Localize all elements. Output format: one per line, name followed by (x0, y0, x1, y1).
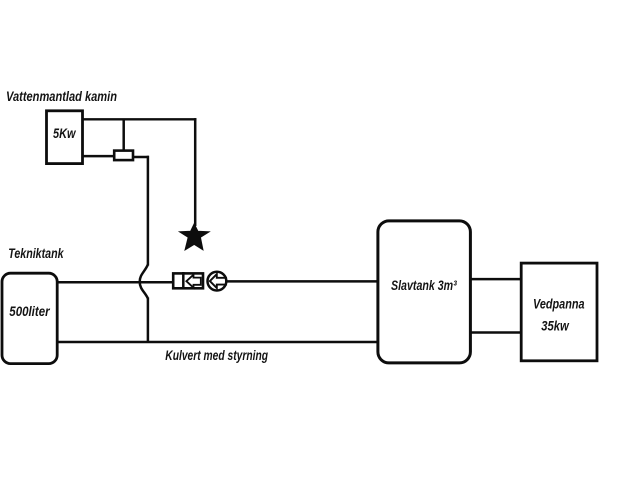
tank Slavtank 3m3 (378, 221, 471, 363)
fuse/shunt box (114, 151, 133, 161)
jog crossing top pipe (140, 265, 148, 299)
svg-text:Kulvert med styrning: Kulvert med styrning (165, 347, 268, 363)
wire stove top to corner (83, 118, 196, 120)
valve divider (182, 272, 185, 290)
boiler Vedpanna (521, 263, 597, 361)
svg-text:500liter: 500liter (9, 303, 51, 319)
wire corner down to star (194, 118, 197, 226)
top pipe tank to valve (58, 281, 172, 284)
star (expansion symbol) (180, 224, 209, 250)
top pipe pump to slavtank (226, 280, 377, 283)
bottom pipe tank to slavtank (58, 341, 378, 344)
wire jog down to bottom pipe (147, 298, 150, 342)
svg-text:Slavtank 3m³: Slavtank 3m³ (391, 277, 457, 293)
svg-text:5Kw: 5Kw (53, 125, 76, 141)
pipe slavtank to vedpanna top (471, 278, 520, 281)
svg-text:Vedpanna: Vedpanna (533, 296, 585, 312)
valve box (173, 273, 203, 288)
valve arrow (186, 275, 200, 288)
svg-text:Tekniktank: Tekniktank (8, 245, 64, 261)
wire stove lower to fuse (83, 155, 115, 158)
wire fuse to corner (133, 156, 149, 159)
svg-text:35kw: 35kw (541, 318, 569, 334)
tank 500liter (2, 273, 57, 363)
pump arrow (210, 274, 226, 288)
pump circle (208, 272, 227, 291)
pipe slavtank to vedpanna bottom (471, 331, 520, 334)
stove box 5Kw (47, 111, 83, 164)
wire corner down to jog (147, 156, 150, 266)
svg-text:Vattenmantlad kamin: Vattenmantlad kamin (6, 88, 117, 104)
wire branch down to valve-box (122, 119, 125, 150)
